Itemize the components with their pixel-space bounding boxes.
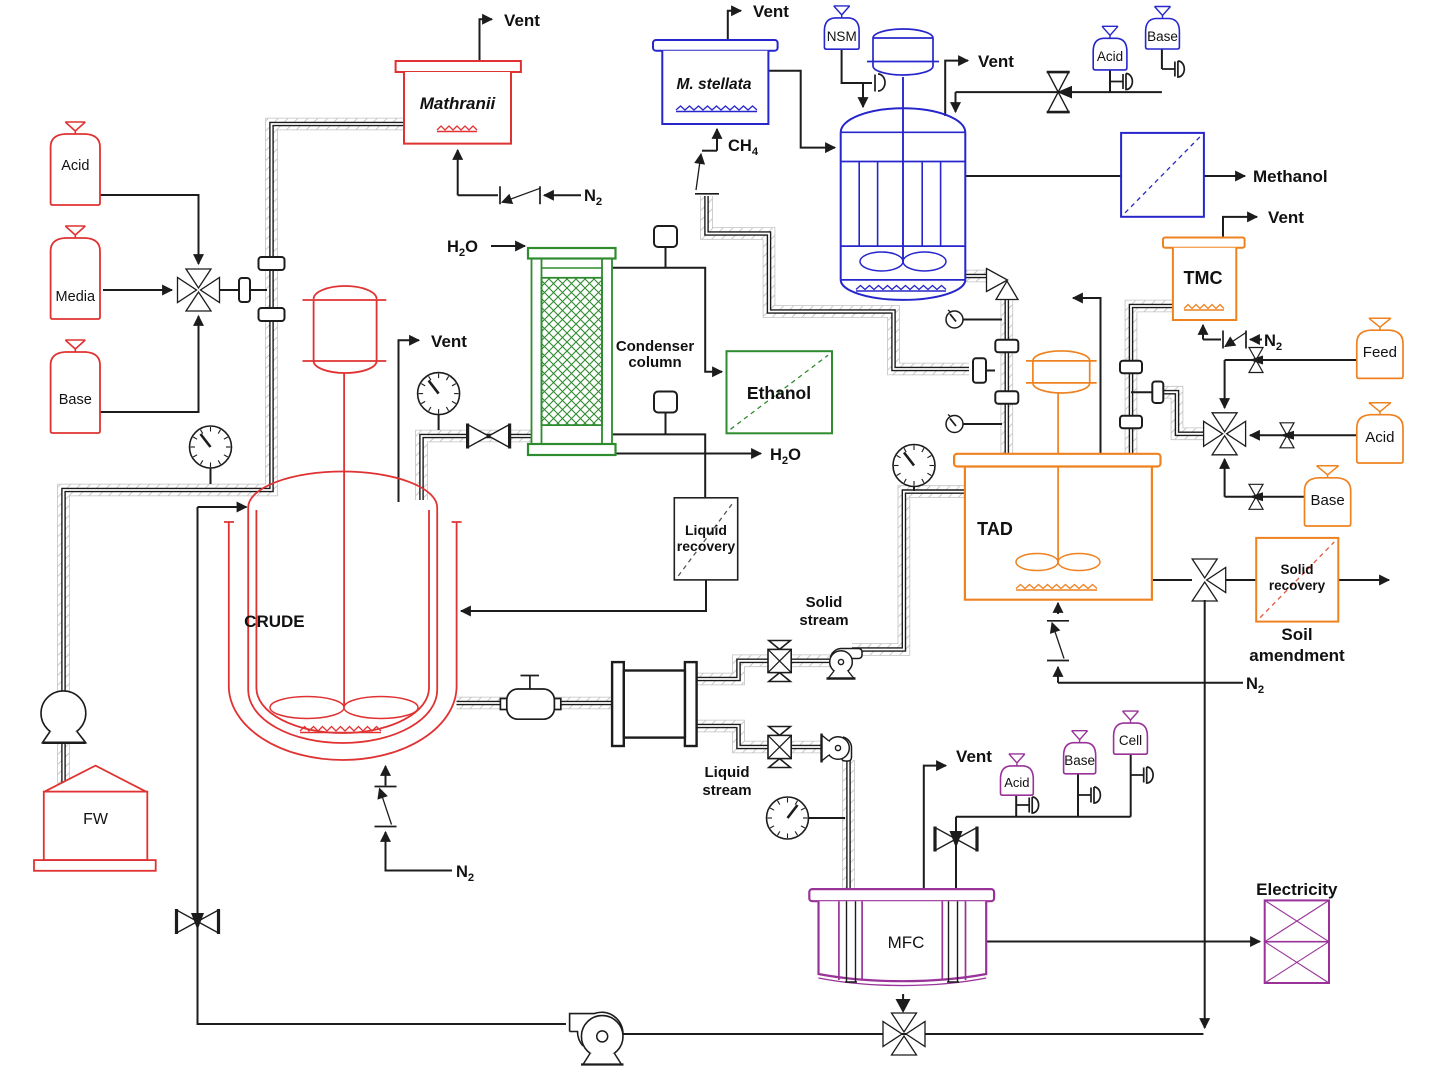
- svg-text:TAD: TAD: [977, 519, 1013, 539]
- wire: CRUDE vent line: [399, 340, 420, 502]
- component: Electricity load: [1265, 900, 1329, 983]
- component: inline sample valve: [500, 676, 560, 720]
- svg-text:Liquid: Liquid: [685, 522, 727, 538]
- wire: N2 supply to TAD filter: [1058, 667, 1243, 683]
- wire: Acid (blue) stem: [1109, 70, 1111, 92]
- component: solid/liquid separator: [612, 662, 697, 746]
- component: acid pinch valve: [1280, 423, 1294, 448]
- component: Ethanol tote: [727, 351, 833, 433]
- svg-text:Base: Base: [59, 392, 92, 408]
- component: septum port on NSM line: [875, 74, 885, 92]
- svg-text:Base: Base: [1064, 753, 1095, 768]
- label: Base (blue): [1147, 29, 1178, 44]
- label: Vent (MFC): [956, 747, 992, 766]
- wire: TMC branch link: [1131, 391, 1152, 393]
- component: check valves at reactor outlet: [987, 269, 1019, 300]
- wire: staircase to riser link: [986, 370, 995, 372]
- svg-text:Soil: Soil: [1281, 625, 1312, 644]
- wire: methane reactor vent: [945, 61, 968, 116]
- wire: Base (purple) stem: [1077, 774, 1079, 817]
- svg-text:Condenser: Condenser: [616, 338, 695, 355]
- wire: valve to Solid recovery: [1217, 579, 1256, 581]
- svg-text:Ethanol: Ethanol: [747, 383, 811, 403]
- component: solid recovery 3-way valve: [1192, 559, 1226, 601]
- svg-text:Acid: Acid: [1004, 775, 1029, 790]
- component: septum port (MFC Cell): [1131, 767, 1153, 783]
- label: Methanol: [1253, 167, 1328, 186]
- svg-text:Vent: Vent: [978, 52, 1014, 71]
- wire: N2 supply to Mathranii filter: [544, 194, 581, 196]
- node: header coupling upper: [259, 257, 285, 270]
- component: sterile filter on TMC N2: [1223, 331, 1246, 349]
- wire: condenser bottom line to Liquid recovery: [613, 434, 705, 497]
- component: pressure gauge (MFC inlet): [767, 797, 846, 839]
- component: sterile filter on CH4 line: [695, 154, 719, 194]
- component: FW tank: [34, 766, 156, 871]
- component: septum port (blue Acid): [1110, 74, 1132, 90]
- svg-text:Mathranii: Mathranii: [420, 94, 497, 113]
- wire: CH4 into M. stellata: [702, 129, 717, 151]
- label: Vent (M. stellata): [753, 2, 789, 21]
- component: small gauge lower (TAD riser): [946, 415, 1002, 433]
- svg-text:Methanol: Methanol: [1253, 167, 1328, 186]
- valve: condenser inlet valve: [468, 424, 510, 449]
- component: TAD stirrer motor: [1026, 351, 1097, 562]
- wire: MFC bottom outlet: [896, 994, 911, 1013]
- svg-text:Solid: Solid: [1281, 562, 1314, 577]
- wire: membrane to Methanol: [1204, 175, 1245, 177]
- node: header coupling lower: [259, 308, 285, 321]
- wire: bottom transfer line: [623, 1033, 1203, 1035]
- svg-text:Vent: Vent: [431, 332, 467, 351]
- node: TMC line coupling upper: [1120, 361, 1142, 374]
- component: Media bottle (red): [51, 226, 100, 319]
- component: dosing 4-way valve (TAD): [1204, 413, 1246, 455]
- node: TMC branch coupling: [1152, 381, 1163, 403]
- component: condenser column: [528, 248, 616, 455]
- label: Acid (orange): [1365, 429, 1394, 446]
- label: Vent (methane reactor): [978, 52, 1014, 71]
- svg-text:Cell: Cell: [1119, 733, 1142, 748]
- wire: Acid (orange) line: [1250, 434, 1357, 436]
- svg-text:Electricity: Electricity: [1256, 880, 1338, 899]
- component: M. stellata reactor: [653, 40, 778, 124]
- svg-text:Base: Base: [1147, 29, 1178, 44]
- node: riser coupling lower: [995, 391, 1018, 404]
- svg-text:stream: stream: [799, 612, 848, 629]
- label: N2 (CRUDE): [456, 863, 474, 884]
- label: CRUDE: [244, 612, 304, 631]
- label: H2O (coolant): [447, 238, 478, 259]
- label: Vent (TMC): [1268, 208, 1304, 227]
- wire: MFC vent: [924, 766, 946, 889]
- wire: solids drain down: [1204, 600, 1206, 1028]
- svg-text:Solid: Solid: [806, 594, 843, 611]
- wire: MFC output to Electricity: [986, 941, 1260, 943]
- component: sterile filter on TAD N2: [1047, 621, 1069, 661]
- wire: Base (blue) stem: [1161, 49, 1163, 69]
- svg-text:recovery: recovery: [1269, 578, 1326, 593]
- svg-text:stream: stream: [702, 782, 751, 799]
- component: pressure gauge (feed header): [190, 426, 232, 484]
- wire: Mathranii vent line: [480, 19, 493, 61]
- svg-text:NSM: NSM: [827, 29, 857, 44]
- label: NSM: [827, 29, 857, 44]
- component: sensor on condenser top line: [654, 226, 677, 268]
- label: N2 (TAD): [1246, 675, 1264, 696]
- component: CRUDE vessel: [224, 472, 462, 761]
- wire: NSM bottle line: [842, 49, 872, 107]
- label: CH4: [728, 137, 759, 158]
- component: methane reactor stirrer motor: [867, 29, 939, 115]
- component: base pinch valve: [1249, 484, 1263, 509]
- label: Media: [56, 289, 96, 305]
- label: Base (orange): [1310, 492, 1344, 509]
- component: Acid bottle (purple): [1001, 754, 1034, 795]
- wire: riser from check valve down to TAD lid: [1000, 297, 1013, 454]
- component: feed pinch valve: [1249, 348, 1263, 373]
- component: Mathranii reactor: [396, 61, 521, 144]
- component: TMC composter: [1163, 238, 1245, 321]
- label: MFC: [888, 933, 925, 952]
- component: pinch valve on header: [1047, 72, 1072, 112]
- component: bottom 4-way valve: [883, 1013, 925, 1055]
- label: Acid (purple): [1004, 775, 1029, 790]
- label: Liquid stream: [702, 764, 751, 799]
- label: Acid (blue): [1097, 49, 1123, 64]
- component: CRUDE stirrer motor: [303, 286, 387, 707]
- label: M. stellata: [677, 76, 752, 93]
- component: membrane separator (Methanol): [1121, 133, 1204, 217]
- label: H2O (outlet): [770, 446, 801, 467]
- label: Vent (CRUDE): [431, 332, 467, 351]
- svg-text:Media: Media: [56, 289, 96, 305]
- wire: M. stellata CH4 line staircase to TAD riser: [707, 196, 970, 369]
- label: Base (purple): [1064, 753, 1095, 768]
- svg-text:Base: Base: [1310, 492, 1344, 509]
- component: feed 4-way valve (top-left): [178, 269, 220, 311]
- wire: Cell (purple) stem: [1130, 754, 1132, 817]
- component: septum port (MFC Acid): [1016, 797, 1038, 813]
- svg-text:column: column: [628, 354, 681, 371]
- svg-text:Vent: Vent: [753, 2, 789, 21]
- component: bottom transfer pump: [570, 1012, 624, 1064]
- label: FW: [83, 811, 109, 828]
- wire: methane reactor outlet stub: [965, 270, 988, 283]
- wire: N2 supply to CRUDE filter: [386, 832, 453, 871]
- wire: TAD offgas recycle: [1073, 298, 1101, 454]
- svg-text:Vent: Vent: [1268, 208, 1304, 227]
- wire: FW riser / feed header to Mathranii: [64, 124, 405, 791]
- node: junction coupling on valve outlet: [239, 278, 250, 302]
- wire: TMC condensate line down to TAD: [1131, 306, 1173, 454]
- wire: solid pump discharge up to TAD: [852, 492, 965, 650]
- svg-text:MFC: MFC: [888, 933, 925, 952]
- component: Base bottle (purple): [1064, 731, 1096, 774]
- component: Acid bottle (orange): [1357, 403, 1403, 463]
- component: pressure gauge (CRUDE vapour): [418, 373, 460, 430]
- valve: recycle line valve: [177, 909, 219, 934]
- component: Acid bottle (blue): [1093, 26, 1127, 70]
- component: FW feed pump: [41, 691, 86, 743]
- label: Solid stream: [799, 594, 848, 629]
- component: MFC fuel cell: [809, 889, 994, 985]
- node: staircase end coupling: [973, 358, 986, 383]
- component: Feed bottle (orange): [1357, 318, 1403, 378]
- component: methane bubble-column reactor: [841, 108, 966, 300]
- valve: liquid stream valve: [768, 727, 791, 768]
- wire: Acid (purple) stem: [1015, 795, 1017, 817]
- component: Base bottle (blue): [1146, 7, 1180, 50]
- label: Cell (purple): [1119, 733, 1142, 748]
- wire: N2 supply to TMC filter: [1250, 339, 1262, 341]
- component: Liquid recovery unit: [674, 498, 737, 580]
- wire: TMC vent: [1223, 217, 1257, 238]
- component: septum port (blue Base): [1162, 61, 1184, 77]
- wire: N2 sparge into Mathranii: [458, 150, 498, 195]
- svg-text:Feed: Feed: [1363, 344, 1397, 361]
- wire: methane reactor to membrane: [965, 175, 1121, 177]
- wire: H2O into condenser: [491, 245, 525, 247]
- svg-text:Liquid: Liquid: [705, 764, 750, 781]
- wire: separator solid outlet to valve/pump: [697, 661, 831, 679]
- label: TAD: [977, 519, 1013, 539]
- label: Soil amendment: [1249, 625, 1345, 665]
- wire: N2 sparge into TAD: [1057, 603, 1059, 614]
- label: TMC: [1184, 268, 1223, 288]
- svg-text:Vent: Vent: [504, 11, 540, 30]
- svg-text:FW: FW: [83, 811, 109, 828]
- svg-text:Acid: Acid: [1365, 429, 1394, 446]
- wire: Base (orange) line: [1225, 459, 1305, 497]
- component: TAD digester: [954, 454, 1160, 600]
- label: N2 (TMC): [1264, 332, 1282, 353]
- wire: Acid bottle to 4-way valve: [98, 195, 199, 264]
- wire: CRUDE outlet to separator: [457, 697, 613, 710]
- svg-text:Acid: Acid: [61, 158, 89, 174]
- label: Solid recovery: [1269, 562, 1326, 593]
- component: Acid bottle (red): [51, 122, 100, 205]
- wire: condenser H2O outlet: [615, 453, 761, 455]
- component: septum port (MFC Base): [1078, 787, 1100, 803]
- component: small gauge upper (TAD riser): [946, 310, 1002, 328]
- svg-text:recovery: recovery: [677, 538, 736, 554]
- svg-text:Vent: Vent: [956, 747, 992, 766]
- wire: TAD outlet to solid recovery valve: [1152, 579, 1192, 581]
- wire: condenser top line to Ethanol: [613, 268, 722, 372]
- component: solid stream pump: [827, 649, 863, 679]
- component: Cell bottle (purple): [1114, 711, 1148, 754]
- wire: separator liquid outlet to valve/pump: [697, 726, 829, 747]
- component: NSM bottle: [824, 6, 859, 49]
- label: Base: [59, 392, 92, 408]
- wire: Liquid recovery to CRUDE: [461, 580, 706, 611]
- wire: 4-way valve outlet to feed header: [220, 289, 267, 291]
- node: riser coupling upper: [995, 340, 1018, 353]
- label: Electricity: [1256, 880, 1338, 899]
- wire: MFC dosing manifold: [956, 817, 1131, 889]
- component: liquid stream pump: [822, 734, 852, 763]
- label: N2 (Mathranii): [584, 187, 602, 208]
- svg-text:M. stellata: M. stellata: [677, 76, 752, 93]
- wire: Feed line to 4-way valve: [1225, 360, 1357, 408]
- svg-text:amendment: amendment: [1249, 646, 1345, 665]
- svg-text:CRUDE: CRUDE: [244, 612, 304, 631]
- component: Base bottle (orange): [1305, 466, 1351, 526]
- component: pressure gauge (TAD inlet): [893, 445, 935, 492]
- wire: N2 sparge into TMC: [1203, 325, 1221, 340]
- svg-text:TMC: TMC: [1184, 268, 1223, 288]
- wire: TAD branch to 4-way valve: [1163, 392, 1205, 434]
- label: Vent (Mathranii): [504, 11, 540, 30]
- component: sterile filter on Mathranii N2: [500, 186, 540, 204]
- label: Condenser column: [616, 338, 695, 371]
- wire: liquid pump discharge down to MFC: [842, 760, 855, 889]
- node: TMC line coupling lower: [1120, 416, 1142, 429]
- label: Feed: [1363, 344, 1397, 361]
- component: sterile filter on CRUDE N2: [375, 787, 397, 827]
- wire: Media bottle to 4-way valve: [103, 289, 172, 291]
- wire: recycle line from bottom to CRUDE inlet: [198, 507, 567, 1024]
- wire: CRUDE vapour line to condenser valve: [422, 436, 532, 500]
- wire: Base bottle to 4-way valve: [98, 316, 199, 412]
- wire: Solid recovery outlet: [1338, 579, 1389, 581]
- label: Ethanol: [747, 383, 811, 403]
- label: Acid: [61, 158, 89, 174]
- wire: M. stellata vent: [728, 11, 741, 40]
- wire: N2 sparge into CRUDE: [385, 766, 387, 786]
- component: Solid recovery unit: [1256, 538, 1338, 622]
- label: Liquid recovery: [677, 522, 736, 554]
- component: sensor on condenser bottom line: [654, 392, 677, 435]
- component: MFC feed valve: [935, 827, 977, 852]
- wire: acid/base header into methane reactor: [956, 92, 1162, 112]
- valve: solid stream valve: [768, 641, 791, 682]
- label: Mathranii: [420, 94, 497, 113]
- svg-text:Acid: Acid: [1097, 49, 1123, 64]
- component: Base bottle (red): [51, 340, 100, 433]
- wire: M. stellata to methane reactor: [768, 71, 835, 148]
